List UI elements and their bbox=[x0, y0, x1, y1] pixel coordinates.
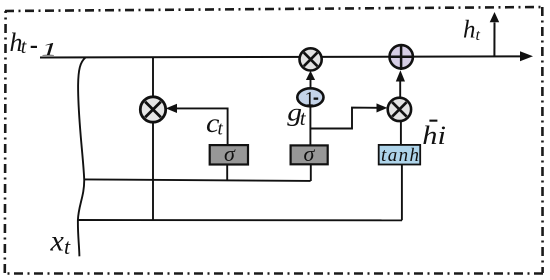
svg-text:σ: σ bbox=[224, 141, 236, 166]
svg-text:t: t bbox=[476, 27, 481, 44]
svg-text:t: t bbox=[218, 119, 224, 140]
svg-text:x: x bbox=[50, 224, 65, 257]
svg-text:t: t bbox=[21, 36, 27, 58]
svg-text:σ: σ bbox=[304, 141, 316, 166]
svg-text:1: 1 bbox=[41, 39, 57, 59]
svg-text:h: h bbox=[463, 16, 476, 43]
svg-text:hi: hi bbox=[422, 122, 446, 150]
svg-text:1: 1 bbox=[305, 88, 315, 110]
svg-text:t: t bbox=[64, 234, 71, 259]
